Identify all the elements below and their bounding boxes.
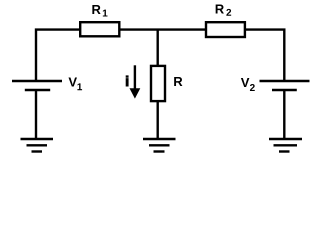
current arrow i (downward)	[130, 65, 141, 98]
label i	[126, 76, 128, 86]
resistor R2	[206, 22, 245, 37]
resistor R1	[80, 22, 119, 36]
label R2	[216, 5, 231, 16]
battery V1	[12, 81, 62, 90]
label R (middle resistor)	[174, 77, 182, 86]
wire: V1 negative plate to left ground	[35, 90, 37, 139]
wire: top rail left segment with vertical drop to V1 positive plate	[36, 30, 80, 81]
label V2	[241, 78, 255, 91]
battery V2	[260, 81, 310, 90]
label R1	[92, 5, 107, 16]
wire: top rail right segment with vertical drop to V2 positive plate	[245, 30, 285, 81]
resistor R	[151, 66, 165, 101]
ground: middle	[143, 139, 176, 152]
label V1	[68, 78, 82, 91]
wire: top rail middle segment (R1 right pin to R2 left pin)	[120, 28, 207, 30]
ground: right	[269, 139, 302, 152]
ground: left	[21, 139, 54, 152]
wire: junction at top of R down to resistor R top pin	[156, 30, 158, 66]
wire: resistor R bottom pin to middle ground	[156, 101, 158, 139]
wire: V2 negative plate to right ground	[283, 90, 285, 139]
